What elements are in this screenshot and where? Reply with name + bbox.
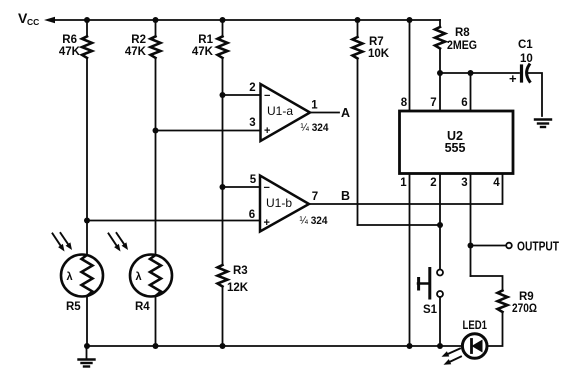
node R6/pin6 junction <box>84 218 90 224</box>
svg-text:R6: R6 <box>62 34 77 46</box>
pin 7 stub and label <box>439 73 441 111</box>
wire pin5 line (R1/R3 node to U1-b pin 5) <box>223 186 261 188</box>
resistor R9 <box>487 291 537 347</box>
svg-text:R8: R8 <box>455 27 470 39</box>
resistor R3 <box>218 187 249 346</box>
svg-text:3: 3 <box>249 117 255 129</box>
wire pin3 down to R9 <box>471 276 503 291</box>
terminal OUTPUT <box>506 243 512 249</box>
svg-text:47K: 47K <box>125 46 147 58</box>
svg-text:3: 3 <box>461 177 467 189</box>
resistor R7 <box>353 20 390 225</box>
resistor R6 <box>59 20 92 221</box>
wire pin3 line (R2 node to U1-a pin 3) <box>156 130 261 132</box>
node ground rail junctions <box>84 343 90 349</box>
wire U1-a output to A <box>310 112 339 114</box>
svg-text:λ: λ <box>136 271 142 283</box>
svg-text:10: 10 <box>520 53 533 65</box>
svg-text:LED1: LED1 <box>463 320 488 332</box>
svg-text:A: A <box>341 106 350 120</box>
svg-text:R9: R9 <box>519 291 534 303</box>
svg-text:U1-a: U1-a <box>267 104 293 118</box>
pin 2 stub and label <box>439 174 441 270</box>
svg-text:6: 6 <box>461 97 467 109</box>
wire OUTPUT <box>471 245 507 247</box>
svg-text:R1: R1 <box>198 34 213 46</box>
op-amp U1-b <box>249 174 329 232</box>
svg-text:λ: λ <box>67 271 73 283</box>
svg-text:270Ω: 270Ω <box>512 303 537 315</box>
svg-text:555: 555 <box>445 141 466 155</box>
svg-text:1: 1 <box>311 100 318 112</box>
svg-text:¼ 324: ¼ 324 <box>300 215 329 227</box>
node R7/pin2 junction <box>437 222 443 228</box>
svg-text:5: 5 <box>250 174 257 186</box>
svg-text:2: 2 <box>430 177 436 189</box>
wire pin2 line (R1 node to U1-a pin 2) <box>223 94 261 96</box>
svg-text:+: + <box>264 125 270 137</box>
pin 3 stub and label <box>470 174 472 277</box>
photoresistor R4 <box>130 131 172 347</box>
resistor R1 <box>192 20 228 187</box>
wire R7 to pin 2 <box>358 224 441 226</box>
switch S1 <box>418 269 443 347</box>
R5 light arrows <box>53 233 73 252</box>
svg-text:2: 2 <box>249 82 255 94</box>
wire top Vcc rail <box>52 19 440 21</box>
svg-text:47K: 47K <box>59 46 81 58</box>
svg-text:7: 7 <box>312 191 318 203</box>
node top rail junctions <box>84 17 90 23</box>
svg-text:2MEG: 2MEG <box>447 40 477 52</box>
node R2/pin3 junction <box>153 128 159 134</box>
R4 light arrows <box>109 233 129 252</box>
svg-text:−: − <box>264 182 270 194</box>
svg-text:4: 4 <box>493 177 500 189</box>
node pin3/OUTPUT junction <box>468 243 474 249</box>
svg-text:10K: 10K <box>368 48 390 60</box>
svg-text:−: − <box>264 90 270 102</box>
svg-text:R4: R4 <box>135 301 150 313</box>
svg-text:R2: R2 <box>131 34 146 46</box>
svg-text:R7: R7 <box>369 36 384 48</box>
capacitor C1 <box>509 39 542 116</box>
node R1/R3/pin5 junction <box>220 184 226 190</box>
svg-text:¼ 324: ¼ 324 <box>301 122 330 134</box>
svg-text:C1: C1 <box>518 39 533 51</box>
svg-text:+: + <box>264 217 270 229</box>
svg-text:U1-b: U1-b <box>266 196 292 210</box>
resistor R8 <box>435 20 477 73</box>
LED1 <box>462 320 487 358</box>
node pin6 junction <box>468 70 474 76</box>
pin 1 stub and label <box>409 174 411 347</box>
wire R8 bottom to C1 <box>440 72 519 74</box>
op-amp U1-a <box>249 82 329 141</box>
svg-text:1: 1 <box>400 177 407 189</box>
pin 6 stub and label <box>470 73 472 111</box>
pin 8 stub and label <box>409 20 411 111</box>
LED1 emission arrows <box>442 349 462 365</box>
svg-text:R3: R3 <box>233 265 248 277</box>
resistor R2 <box>125 20 161 131</box>
svg-text:12K: 12K <box>227 282 249 294</box>
svg-text:CC: CC <box>27 17 39 27</box>
svg-text:B: B <box>341 189 350 203</box>
ground (C1) <box>535 120 551 128</box>
node R1/pin2 junction <box>220 92 226 98</box>
wire ground rail <box>87 345 463 347</box>
svg-text:R5: R5 <box>66 301 81 313</box>
ground (main) <box>79 346 95 367</box>
svg-text:47K: 47K <box>192 46 214 58</box>
wire pin6 line (R6/R5 node to U1-b pin 6) <box>87 220 260 222</box>
svg-text:+: + <box>509 71 517 86</box>
Vcc arrow <box>44 17 55 23</box>
wire U1-b output B line to 555 pin 4 <box>309 174 503 205</box>
svg-text:7: 7 <box>430 97 436 109</box>
svg-text:6: 6 <box>249 209 255 221</box>
svg-text:8: 8 <box>401 97 408 109</box>
node pin7 junction <box>437 70 443 76</box>
IC U2 555 <box>400 111 514 174</box>
svg-text:S1: S1 <box>423 304 438 316</box>
photoresistor R5 <box>61 221 103 347</box>
svg-text:OUTPUT: OUTPUT <box>517 240 559 254</box>
